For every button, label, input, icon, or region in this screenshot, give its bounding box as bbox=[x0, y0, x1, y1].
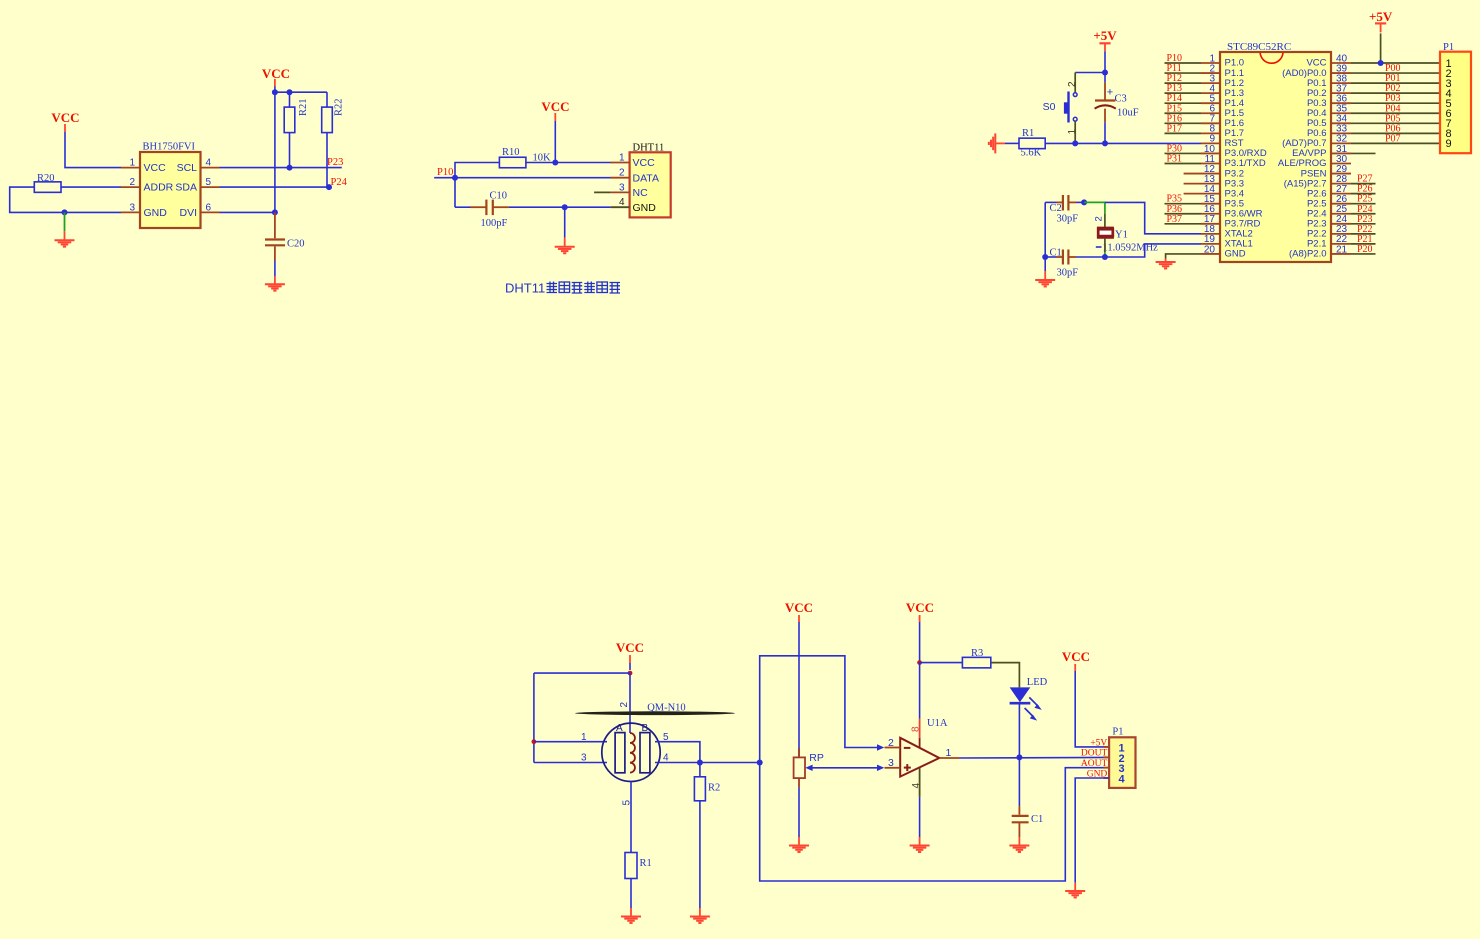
MCU pin 2 P1.1 stub bbox=[1201, 72, 1221, 74]
svg-text:DOUT: DOUT bbox=[1081, 749, 1108, 759]
svg-text:GND: GND bbox=[633, 202, 657, 214]
MCU pin 22 P2.1 stub bbox=[1330, 243, 1351, 245]
resistor R1 (sensor) bbox=[625, 853, 637, 879]
wire RP bottom to ground bbox=[798, 787, 800, 837]
op-amp output pin 1 stub bbox=[939, 757, 959, 759]
DHT11 pin 1 stub bbox=[611, 162, 630, 164]
resistor R21 bbox=[284, 107, 295, 133]
wire sensor bottom electrode bbox=[630, 782, 632, 853]
IC U-BH1750FVI body bbox=[140, 152, 201, 228]
svg-text:10uF: 10uF bbox=[1117, 108, 1139, 119]
connector P1 (MCU) body bbox=[1440, 52, 1471, 154]
MCU pin 14 P3.4 stub bbox=[1184, 193, 1221, 195]
wire C3 bottom to RST line bbox=[1104, 122, 1106, 143]
svg-text:R1: R1 bbox=[640, 858, 652, 869]
svg-text:100pF: 100pF bbox=[481, 218, 508, 229]
wire VCC junction left bbox=[534, 672, 630, 674]
svg-text:LED: LED bbox=[1027, 677, 1048, 688]
ground (left of R1, rotated) bbox=[995, 142, 1005, 144]
node SDA/R22 junction bbox=[326, 184, 332, 190]
svg-text:R2: R2 bbox=[708, 783, 720, 794]
wire to ground (crystal) bbox=[1044, 257, 1046, 271]
resistor R2 bbox=[694, 777, 705, 801]
svg-text:QM-N10: QM-N10 bbox=[647, 703, 686, 714]
wire pin 36 to connector P1 bbox=[1351, 102, 1440, 104]
MCU pin 8 P1.7 stub bbox=[1201, 132, 1221, 134]
svg-text:P10: P10 bbox=[437, 167, 453, 178]
BH1750 pin 4 SCL stub bbox=[201, 167, 220, 169]
op-amp U1A triangle bbox=[900, 738, 939, 777]
MCU pin 30 ALE/PROG stub bbox=[1330, 163, 1351, 165]
wire output to DOUT bbox=[959, 756, 1109, 759]
ground (MCU pin 20) bbox=[1165, 259, 1167, 263]
wire R2 to ground bbox=[699, 801, 701, 908]
MCU pin 33 P0.6 stub bbox=[1330, 132, 1351, 134]
wire net P17 bbox=[1165, 132, 1202, 134]
node S0/C3 branch bbox=[1102, 70, 1108, 76]
node junction GND row / pin3 bbox=[62, 209, 68, 215]
crystal Y1 bbox=[1098, 229, 1113, 236]
MCU pin 9 RST stub bbox=[1201, 142, 1221, 144]
wire VCC rail to R21/R22 tops bbox=[275, 91, 327, 93]
svg-text:S0: S0 bbox=[1043, 101, 1056, 113]
wire junction to BH1750 pin 3 bbox=[65, 211, 122, 213]
svg-text:R21: R21 bbox=[298, 98, 309, 116]
wire R10 right to DHT11 pin 1 bbox=[526, 162, 611, 164]
node C2/Y1/XTAL2 bbox=[1081, 199, 1087, 205]
svg-text:Y1: Y1 bbox=[1115, 230, 1128, 241]
svg-text:6: 6 bbox=[206, 202, 212, 213]
wire R22 top stub bbox=[326, 92, 328, 107]
svg-text:VCC: VCC bbox=[616, 640, 644, 655]
wire LED to output line bbox=[1018, 703, 1020, 757]
wire VCC to BH1750 pin 1 bbox=[65, 132, 121, 168]
svg-text:+5V: +5V bbox=[1369, 9, 1393, 24]
svg-text:3: 3 bbox=[888, 757, 894, 769]
svg-text:30pF: 30pF bbox=[1057, 268, 1079, 279]
svg-text:DATA: DATA bbox=[633, 172, 659, 184]
wire SDA to P24 bbox=[220, 186, 331, 188]
wire pin 37 to connector P1 bbox=[1351, 92, 1440, 94]
wire node down to op-amp pin 8 bbox=[919, 663, 921, 719]
wire P10 to DHT11 pin 2 DATA bbox=[434, 177, 611, 179]
capacitor C2 30pF bbox=[1045, 201, 1056, 203]
node op-amp supply junction bbox=[917, 660, 922, 665]
ground (RP) bbox=[798, 837, 800, 846]
MCU pin 1 P1.0 stub bbox=[1201, 62, 1221, 64]
ground (R2) bbox=[699, 908, 701, 917]
wire sensor top electrode (pin 2) bbox=[629, 673, 631, 733]
svg-text:R20: R20 bbox=[37, 173, 55, 184]
svg-text:VCC: VCC bbox=[51, 110, 79, 125]
MCU pin 23 P2.2 stub bbox=[1330, 233, 1351, 235]
ground (C1) bbox=[1018, 837, 1020, 846]
arrow into pin 2 bbox=[877, 744, 884, 750]
svg-text:VCC: VCC bbox=[633, 157, 656, 169]
svg-text:9: 9 bbox=[1446, 138, 1452, 150]
MCU pin 28 (A15)P2.7 stub bbox=[1330, 183, 1351, 185]
wire MCU pin 20 GND bbox=[1166, 254, 1201, 259]
svg-text:30pF: 30pF bbox=[1057, 214, 1079, 225]
wire left vertical to pins 1,3 bbox=[533, 673, 535, 762]
ground (connector) bbox=[1074, 883, 1076, 891]
IC U-STC89C52RC body bbox=[1220, 52, 1331, 262]
MCU pin 35 P0.4 stub bbox=[1330, 112, 1351, 114]
MCU pin 6 P1.5 stub bbox=[1201, 112, 1221, 114]
ground (R1) bbox=[630, 908, 632, 917]
MCU pin 29 PSEN stub bbox=[1330, 173, 1351, 175]
sensor body circle bbox=[602, 723, 660, 781]
wire R21 bottom to SCL line bbox=[289, 133, 291, 168]
wire node to loop vertical bbox=[700, 762, 760, 764]
BH1750 pin 5 SDA stub bbox=[201, 186, 220, 188]
ground (crystal caps) bbox=[1044, 271, 1046, 280]
MCU pin 10 P3.0/RXD stub bbox=[1201, 152, 1221, 154]
wire net P14 bbox=[1165, 102, 1202, 104]
wire R21 top stub bbox=[289, 92, 291, 107]
svg-text:P37: P37 bbox=[1167, 214, 1183, 225]
wire crystal pin 1 down bbox=[1104, 239, 1106, 252]
resistor R3 bbox=[962, 657, 990, 668]
svg-text:1: 1 bbox=[129, 158, 135, 169]
svg-text:+5V: +5V bbox=[1093, 28, 1117, 43]
wire net stub pin 31 bbox=[1351, 152, 1376, 154]
svg-text:P17: P17 bbox=[1167, 123, 1183, 134]
MCU pin 3 P1.2 stub bbox=[1201, 82, 1221, 84]
svg-text:C1: C1 bbox=[1050, 248, 1062, 259]
svg-text:P20: P20 bbox=[1357, 244, 1373, 255]
svg-text:1: 1 bbox=[581, 732, 587, 743]
MCU pin 32 (AD7)P0.7 stub bbox=[1330, 142, 1351, 144]
wire net stub pin 27 bbox=[1351, 193, 1376, 195]
sensor plate A bbox=[615, 733, 625, 773]
svg-text:2: 2 bbox=[888, 737, 894, 749]
wire pin 1 of sensor bbox=[534, 741, 607, 743]
wire pin 5 of sensor to node bbox=[655, 742, 700, 763]
wire net P31 bbox=[1165, 163, 1202, 165]
wire R1 to ground bbox=[630, 879, 632, 909]
MCU pin 38 P0.1 stub bbox=[1330, 82, 1351, 84]
node SCL/R21 junction bbox=[287, 165, 293, 171]
svg-text:5: 5 bbox=[206, 177, 212, 188]
op-amp pin 2 stub bbox=[885, 747, 901, 749]
MCU pin 39 (AD0)P0.0 stub bbox=[1330, 72, 1351, 74]
wire R2 top bbox=[699, 763, 701, 777]
wire pin 32 to connector P1 bbox=[1351, 142, 1440, 144]
wire net P16 bbox=[1165, 122, 1202, 124]
ground (below R20 loop) bbox=[64, 231, 66, 240]
ground (DHT11) bbox=[564, 238, 566, 247]
wire VCC vertical down to DVI line bbox=[274, 92, 276, 212]
svg-text:2: 2 bbox=[1067, 81, 1078, 87]
svg-text:VCC: VCC bbox=[262, 66, 290, 81]
wire pin 3 of sensor bbox=[534, 762, 607, 764]
svg-text:P31: P31 bbox=[1167, 154, 1183, 165]
wire branch to S0 top bbox=[1075, 72, 1105, 74]
svg-text:4: 4 bbox=[911, 783, 922, 789]
MCU pin 31 EA/VPP stub bbox=[1330, 152, 1351, 154]
DHT11 pin 4 stub bbox=[611, 206, 630, 208]
MCU pin 26 P2.5 stub bbox=[1330, 203, 1351, 205]
svg-text:4: 4 bbox=[206, 158, 212, 169]
wire R22 bottom to SDA line bbox=[326, 133, 328, 188]
node S0/RST junction bbox=[1072, 140, 1078, 146]
svg-text:2: 2 bbox=[619, 702, 630, 708]
wire net P15 bbox=[1165, 112, 1202, 114]
MCU pin 34 P0.5 stub bbox=[1330, 122, 1351, 124]
IC DHT11 body bbox=[630, 152, 671, 217]
wire R20 right to BH1750 pin 2 ADDR bbox=[61, 186, 121, 188]
MCU pin 20 GND stub bbox=[1201, 253, 1221, 255]
svg-text:AOUT: AOUT bbox=[1081, 759, 1108, 769]
node GND junction bbox=[562, 204, 568, 210]
wire net P37 bbox=[1165, 223, 1202, 225]
svg-text:R3: R3 bbox=[971, 648, 983, 659]
wire pin 33 to connector P1 bbox=[1351, 132, 1440, 134]
svg-text:RP: RP bbox=[809, 752, 824, 764]
sensor QM-N10 mesh line bbox=[575, 711, 735, 715]
svg-text:VCC: VCC bbox=[541, 99, 569, 114]
op-amp plus symbol bbox=[904, 767, 911, 769]
svg-text:R1: R1 bbox=[1022, 128, 1034, 139]
wire XTAL2 to MCU pin 18 bbox=[1105, 202, 1201, 233]
wire VCC to RP bbox=[798, 622, 800, 757]
node loop junction bbox=[757, 760, 763, 766]
svg-text:B: B bbox=[642, 723, 649, 734]
capacitor C20 bbox=[274, 212, 276, 238]
svg-text:VCC: VCC bbox=[144, 162, 167, 174]
connector P1 (output) body bbox=[1109, 737, 1135, 788]
op-amp pin 4 stub bbox=[919, 768, 921, 797]
MCU pin 11 P3.1/TXD stub bbox=[1201, 163, 1221, 165]
svg-text:2: 2 bbox=[129, 177, 135, 188]
wire pin 40 to connector P1 bbox=[1351, 62, 1440, 64]
svg-text:21: 21 bbox=[1336, 244, 1348, 255]
svg-text:1: 1 bbox=[619, 153, 625, 164]
svg-text:DVI: DVI bbox=[179, 207, 197, 219]
ground (below C20) bbox=[274, 276, 276, 284]
op-amp minus symbol bbox=[904, 747, 911, 749]
MCU pin 40 VCC stub bbox=[1330, 62, 1351, 64]
svg-text:4: 4 bbox=[663, 753, 669, 764]
wire net stub pin 26 bbox=[1351, 203, 1376, 205]
svg-text:SDA: SDA bbox=[175, 182, 197, 194]
node VCC pullup junction bbox=[272, 89, 278, 95]
MCU pin 18 XTAL2 stub bbox=[1201, 233, 1221, 235]
MCU pin 12 P3.2 stub bbox=[1184, 173, 1221, 175]
svg-text:5: 5 bbox=[663, 732, 669, 743]
svg-text:20: 20 bbox=[1204, 244, 1216, 255]
svg-text:3: 3 bbox=[619, 182, 625, 193]
wire net stub pin 21 bbox=[1351, 253, 1376, 255]
wire net P30 bbox=[1165, 152, 1202, 154]
wire net stub pin 28 bbox=[1351, 183, 1376, 185]
resistor R1 5.6K bbox=[1019, 138, 1045, 149]
wire net P12 bbox=[1165, 82, 1202, 84]
MCU pin 4 P1.3 stub bbox=[1201, 92, 1221, 94]
ground (op-amp) bbox=[919, 837, 921, 846]
resistor R10 bbox=[499, 157, 526, 168]
switch S0 bbox=[1073, 93, 1077, 97]
MCU pin 17 P3.7/RD stub bbox=[1201, 223, 1221, 225]
wire XTAL1 to MCU pin 19 bbox=[1105, 244, 1201, 257]
BH1750 pin 6 DVI stub bbox=[201, 211, 220, 213]
wire C20 to ground bbox=[274, 261, 276, 277]
wire DVI from pin 6 bbox=[220, 211, 275, 213]
wire net stub pin 23 bbox=[1351, 233, 1376, 235]
MCU pin 24 P2.3 stub bbox=[1330, 223, 1351, 225]
wire +5V to VCC pin 40 line bbox=[1380, 33, 1382, 63]
DHT11 pin 3 stub (NC) bbox=[594, 191, 611, 193]
MCU pin 21 (A8)P2.0 stub bbox=[1330, 253, 1351, 255]
svg-text:C20: C20 bbox=[287, 239, 305, 250]
wire pin 4 to ground bbox=[919, 797, 921, 837]
wire net stub pin 24 bbox=[1351, 223, 1376, 225]
wire pin 35 to connector P1 bbox=[1351, 112, 1440, 114]
MCU pin 7 P1.6 stub bbox=[1201, 122, 1221, 124]
wire net P36 bbox=[1165, 213, 1202, 215]
wire C2 to crystal node bbox=[1076, 201, 1084, 203]
BH1750 pin 1 VCC stub bbox=[121, 167, 140, 169]
wire R20 left loop to GND row bbox=[10, 187, 65, 212]
svg-text:3: 3 bbox=[581, 753, 587, 764]
connector P1 output pin stubs bbox=[1104, 746, 1111, 748]
MCU pin 36 P0.3 stub bbox=[1330, 102, 1351, 104]
wire node to R3 bbox=[920, 662, 963, 664]
svg-text:STC89C52RC: STC89C52RC bbox=[1227, 41, 1291, 53]
sensor plate B bbox=[640, 733, 650, 773]
node C1/Y1/XTAL1 bbox=[1102, 254, 1108, 260]
svg-text:5.6K: 5.6K bbox=[1021, 148, 1042, 159]
svg-text:1: 1 bbox=[1067, 129, 1078, 135]
node C3/RST junction bbox=[1102, 140, 1108, 146]
wire signal loop down to AOUT bbox=[760, 763, 1109, 882]
svg-text:NC: NC bbox=[633, 187, 649, 199]
capacitor C1 30pF bbox=[1045, 256, 1056, 258]
svg-text:P23: P23 bbox=[327, 157, 343, 168]
svg-text:4: 4 bbox=[619, 197, 625, 208]
svg-text:8: 8 bbox=[911, 726, 922, 732]
svg-text:2: 2 bbox=[1094, 216, 1105, 221]
svg-text:+: + bbox=[1107, 87, 1113, 99]
svg-text:R22: R22 bbox=[334, 98, 345, 116]
resistor R22 bbox=[322, 107, 333, 133]
MCU pin 5 P1.4 stub bbox=[1201, 102, 1221, 104]
MCU pin 19 XTAL1 stub bbox=[1201, 243, 1221, 245]
wire pin 34 to connector P1 bbox=[1351, 122, 1440, 124]
svg-text:+5V: +5V bbox=[1090, 738, 1107, 748]
svg-text:VCC: VCC bbox=[906, 600, 934, 615]
node R2 junction bbox=[697, 760, 703, 766]
BH1750 pin 2 ADDR stub bbox=[121, 186, 140, 188]
node LED/C1 junction bbox=[1016, 754, 1022, 760]
capacitor C1 (output) bbox=[1018, 806, 1020, 815]
svg-text:P24: P24 bbox=[331, 177, 348, 188]
MCU pin 16 P3.6/WR stub bbox=[1201, 213, 1221, 215]
wire green segment to ground bbox=[64, 212, 66, 231]
wire SCL to P23 bbox=[220, 167, 342, 169]
svg-text:P07: P07 bbox=[1385, 133, 1401, 144]
capacitor C3 10uF bbox=[1104, 73, 1106, 83]
wire VCC to 10K node bbox=[554, 121, 556, 163]
BH1750 pin 3 GND stub bbox=[121, 211, 140, 213]
MCU pin 15 P3.5 stub bbox=[1201, 203, 1221, 205]
wire junction to ground bbox=[564, 207, 566, 238]
svg-text:ADDR: ADDR bbox=[144, 182, 174, 194]
wire pin 38 to connector P1 bbox=[1351, 82, 1440, 84]
svg-text:GND: GND bbox=[144, 207, 168, 219]
node left vertical / C1 bbox=[1042, 254, 1048, 260]
svg-text:2: 2 bbox=[619, 168, 625, 179]
node P10 junction bbox=[452, 175, 458, 181]
wire green to crystal pin 2 bbox=[1084, 202, 1105, 214]
wire C10 to DHT11 pin 4 GND bbox=[509, 206, 611, 208]
wire +5V down to branch node bbox=[1104, 51, 1106, 72]
svg-text:R10: R10 bbox=[502, 147, 520, 158]
svg-text:GND: GND bbox=[1225, 249, 1246, 260]
wire VCC to R3/pin8 node bbox=[919, 622, 921, 663]
wire R3 to LED bbox=[991, 663, 1020, 688]
RP wiper wire bbox=[808, 767, 878, 769]
wire pin 39 to connector P1 bbox=[1351, 72, 1440, 74]
svg-text:5: 5 bbox=[622, 800, 633, 806]
wire net stub pin 22 bbox=[1351, 243, 1376, 245]
svg-text:1: 1 bbox=[946, 747, 952, 759]
svg-text:P1: P1 bbox=[1443, 42, 1454, 53]
potentiometer RP bbox=[794, 757, 805, 778]
wire net P13 bbox=[1165, 92, 1202, 94]
wire C2-C1 left vertical bbox=[1044, 202, 1046, 257]
svg-text:C2: C2 bbox=[1050, 203, 1062, 214]
node DVI/C20 junction bbox=[272, 209, 278, 215]
wire pin 4 of sensor bbox=[655, 762, 700, 764]
svg-text:VCC: VCC bbox=[1062, 649, 1090, 664]
svg-text:DHT11: DHT11 bbox=[633, 142, 665, 153]
node R10/VCC junction bbox=[552, 160, 558, 166]
MCU pin 27 P2.6 stub bbox=[1330, 193, 1351, 195]
svg-text:3: 3 bbox=[129, 202, 135, 213]
MCU pin 13 P3.3 stub bbox=[1184, 183, 1221, 185]
wire net P10 bbox=[1165, 62, 1202, 64]
node pin1 junction bbox=[532, 739, 537, 744]
svg-text:VCC: VCC bbox=[785, 600, 813, 615]
MCU pin 25 P2.4 stub bbox=[1330, 213, 1351, 215]
wire RST line to MCU pin 9 bbox=[1045, 142, 1201, 144]
node +5V/VCC junction bbox=[1378, 60, 1384, 66]
wire VCC to +5V pin 1 bbox=[1075, 671, 1109, 747]
wire GND pin 4 to ground bbox=[1075, 778, 1109, 883]
svg-text:SCL: SCL bbox=[177, 162, 198, 174]
svg-text:BH1750FVI: BH1750FVI bbox=[143, 142, 196, 153]
sensor heater coil bbox=[630, 733, 635, 773]
op-amp pin 3 stub bbox=[885, 767, 901, 769]
wire R10 left to vertical bbox=[455, 163, 499, 208]
LED bbox=[1010, 687, 1031, 702]
svg-text:P1: P1 bbox=[1112, 727, 1123, 738]
wire net P11 bbox=[1165, 72, 1202, 74]
svg-text:(A8)P2.0: (A8)P2.0 bbox=[1289, 249, 1327, 260]
wire S0 bottom to RST line bbox=[1074, 121, 1076, 143]
chip notch arc bbox=[1260, 53, 1283, 63]
node sensor VCC junction bbox=[628, 671, 633, 676]
svg-text:A: A bbox=[616, 723, 623, 734]
svg-text:C10: C10 bbox=[490, 190, 508, 201]
capacitor C10 bbox=[455, 206, 471, 208]
svg-text:DHT11: DHT11 bbox=[505, 281, 545, 296]
svg-text:C3: C3 bbox=[1115, 94, 1127, 105]
svg-text:4: 4 bbox=[1119, 774, 1126, 786]
wire output node to C1 bbox=[1018, 757, 1020, 806]
